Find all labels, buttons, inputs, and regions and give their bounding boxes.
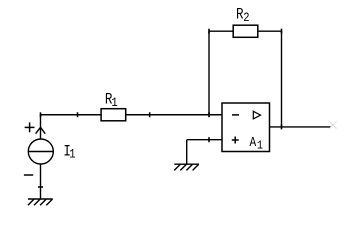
source plus sign	[25, 122, 35, 132]
svg-text:1: 1	[111, 95, 117, 110]
pin marker I1 bottom	[38, 186, 43, 188]
svg-text:1: 1	[69, 146, 75, 161]
wire noninverting input horizontal	[187, 139, 222, 141]
node output junction	[281, 124, 283, 129]
wire output	[270, 126, 331, 128]
wire I1 top stub	[40, 115, 42, 139]
pin marker R1 left	[77, 112, 79, 117]
resistor R2	[233, 25, 258, 37]
label R2	[236, 6, 250, 25]
label A1	[249, 135, 263, 153]
wire noninverting ground stub	[186, 140, 188, 165]
wire feedback top horizontal	[209, 30, 282, 32]
op-amp output direction triangle	[253, 111, 260, 119]
pin marker op-amp noninverting input	[208, 137, 210, 142]
pin marker R2 left	[208, 29, 210, 34]
wire feedback left vertical	[208, 31, 210, 115]
current source I1 arrow	[36, 127, 46, 133]
pin marker R1 right	[149, 112, 151, 117]
wire main horizontal input net (I1 top to op-amp minus input)	[41, 114, 223, 116]
svg-text:2: 2	[243, 10, 249, 25]
op-amp minus input sign	[232, 114, 239, 116]
label R1	[105, 91, 118, 110]
wire I1 bottom stub to ground	[40, 164, 42, 199]
pin marker R2 right	[281, 29, 283, 34]
node output open terminal	[330, 122, 337, 129]
op-amp A1 body	[222, 103, 270, 152]
svg-text:A: A	[249, 135, 256, 150]
ground (op-amp noninverting input)	[174, 164, 199, 170]
current source I1 circle	[28, 139, 53, 164]
svg-text:1: 1	[257, 140, 263, 153]
ground (below I1)	[28, 199, 53, 205]
resistor R1	[101, 109, 126, 121]
wire feedback right vertical	[281, 31, 283, 127]
node top-left corner marker	[40, 112, 42, 117]
op-amp plus input sign	[232, 137, 239, 144]
label I1	[63, 144, 75, 162]
node inverting input junction	[208, 112, 210, 117]
source minus sign	[24, 174, 33, 176]
